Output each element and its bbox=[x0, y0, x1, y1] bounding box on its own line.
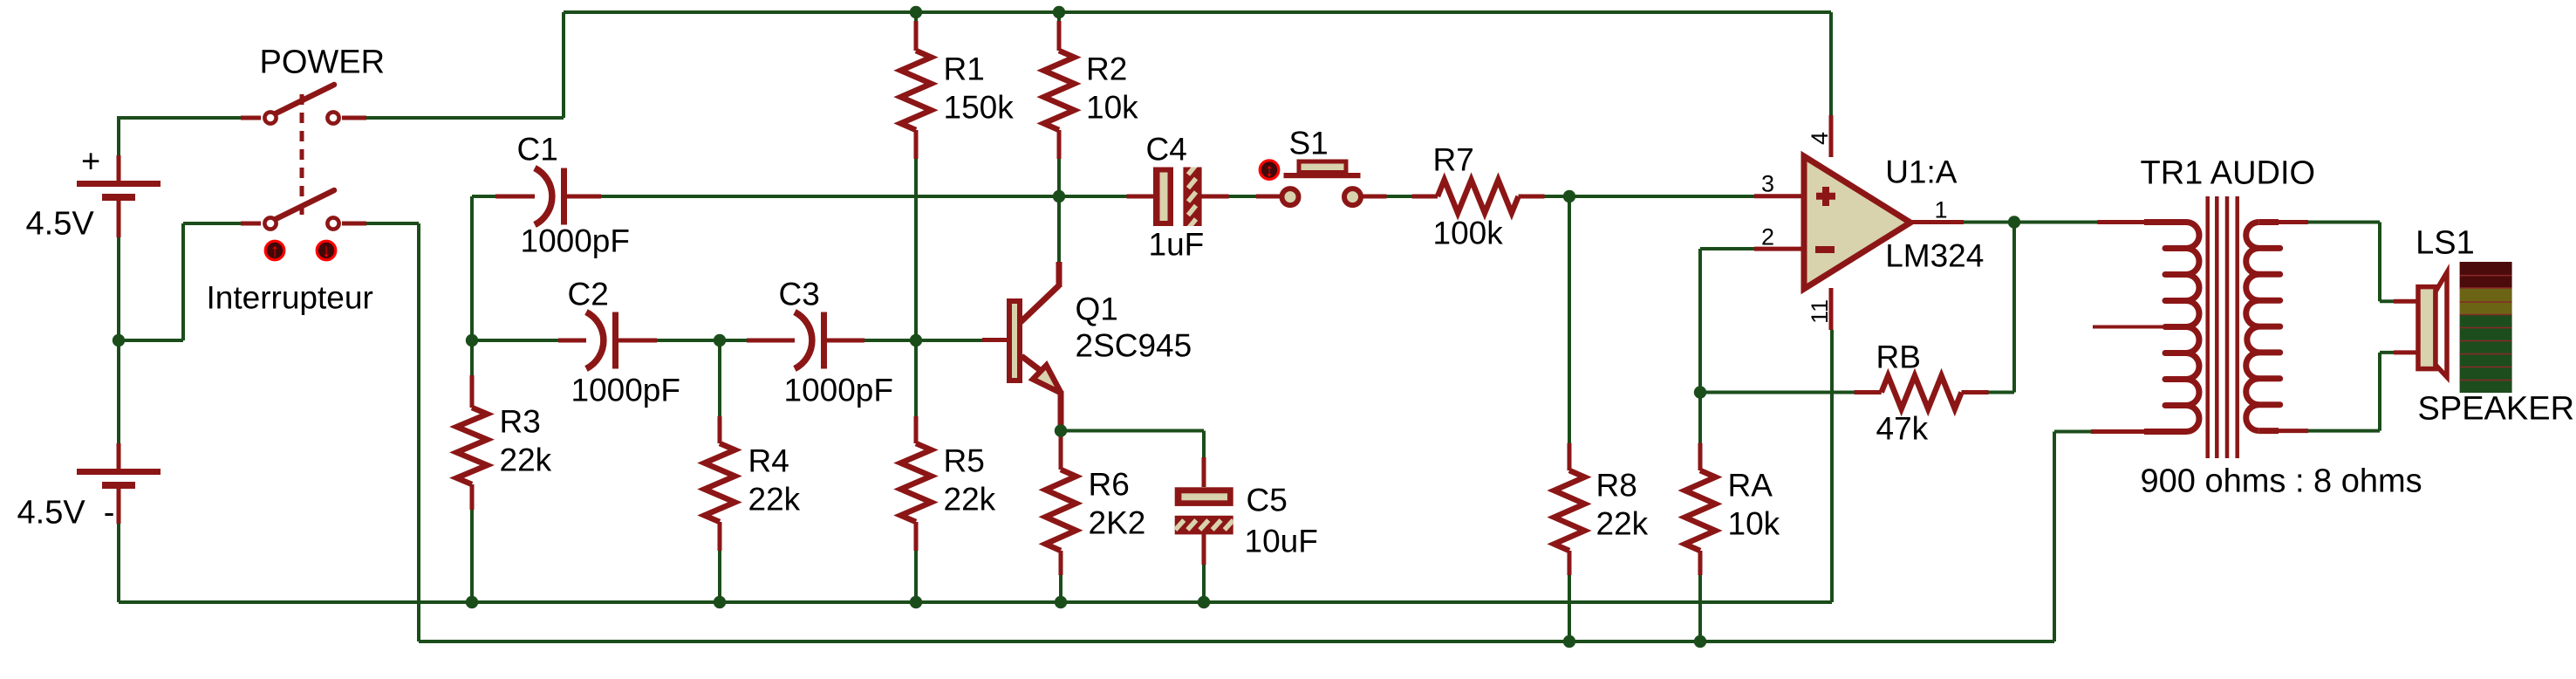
svg-text:RA: RA bbox=[1728, 468, 1773, 504]
svg-text:22k: 22k bbox=[500, 442, 552, 478]
svg-text:POWER: POWER bbox=[260, 45, 386, 81]
svg-text:↓: ↓ bbox=[322, 241, 331, 261]
svg-text:R6: R6 bbox=[1089, 467, 1130, 503]
svg-text:C3: C3 bbox=[779, 277, 820, 312]
svg-text:1000pF: 1000pF bbox=[784, 373, 894, 408]
svg-text:150k: 150k bbox=[944, 90, 1015, 126]
svg-text:2K2: 2K2 bbox=[1089, 505, 1146, 541]
svg-text:R4: R4 bbox=[748, 443, 789, 479]
svg-text:R3: R3 bbox=[500, 404, 541, 440]
svg-text:R1: R1 bbox=[944, 51, 985, 87]
svg-text:RB: RB bbox=[1876, 339, 1921, 375]
svg-text:4.5V: 4.5V bbox=[26, 206, 95, 243]
svg-text:R8: R8 bbox=[1596, 468, 1637, 504]
svg-text:C2: C2 bbox=[568, 277, 609, 312]
svg-text:22k: 22k bbox=[1596, 506, 1649, 542]
svg-text:C1: C1 bbox=[517, 132, 558, 168]
svg-text:47k: 47k bbox=[1876, 411, 1929, 447]
svg-text:TR1 AUDIO: TR1 AUDIO bbox=[2141, 155, 2316, 192]
svg-text:↑: ↑ bbox=[270, 241, 280, 261]
svg-text:10uF: 10uF bbox=[1245, 524, 1318, 559]
svg-text:SPEAKER: SPEAKER bbox=[2418, 391, 2575, 428]
svg-text:3: 3 bbox=[1761, 171, 1774, 197]
svg-text:10k: 10k bbox=[1728, 506, 1780, 542]
svg-text:1000pF: 1000pF bbox=[521, 223, 631, 259]
svg-text:LM324: LM324 bbox=[1885, 238, 1984, 274]
svg-text:U1:A: U1:A bbox=[1885, 154, 1958, 190]
svg-text:Interrupteur: Interrupteur bbox=[207, 280, 373, 316]
svg-text:C5: C5 bbox=[1247, 483, 1288, 518]
svg-text:1uF: 1uF bbox=[1149, 227, 1205, 263]
svg-text:↕: ↕ bbox=[1265, 161, 1274, 181]
svg-text:900 ohms : 8 ohms: 900 ohms : 8 ohms bbox=[2141, 463, 2422, 500]
svg-text:1: 1 bbox=[1935, 197, 1948, 223]
svg-text:S1: S1 bbox=[1289, 126, 1329, 161]
svg-text:R2: R2 bbox=[1086, 51, 1127, 87]
svg-text:2SC945: 2SC945 bbox=[1076, 328, 1192, 364]
svg-text:C4: C4 bbox=[1146, 132, 1187, 168]
svg-text:+: + bbox=[81, 144, 100, 181]
svg-text:22k: 22k bbox=[748, 482, 801, 518]
svg-text:1000pF: 1000pF bbox=[571, 373, 681, 408]
svg-text:Q1: Q1 bbox=[1076, 291, 1118, 327]
svg-text:R5: R5 bbox=[944, 443, 985, 479]
svg-text:10k: 10k bbox=[1086, 90, 1138, 126]
svg-text:4.5V -: 4.5V - bbox=[17, 495, 115, 532]
svg-text:R7: R7 bbox=[1433, 142, 1474, 178]
svg-text:100k: 100k bbox=[1433, 216, 1504, 251]
svg-text:LS1: LS1 bbox=[2415, 225, 2475, 262]
svg-text:4: 4 bbox=[1807, 132, 1833, 145]
svg-text:11: 11 bbox=[1807, 299, 1833, 324]
svg-text:2: 2 bbox=[1761, 224, 1774, 250]
svg-text:22k: 22k bbox=[944, 482, 996, 518]
